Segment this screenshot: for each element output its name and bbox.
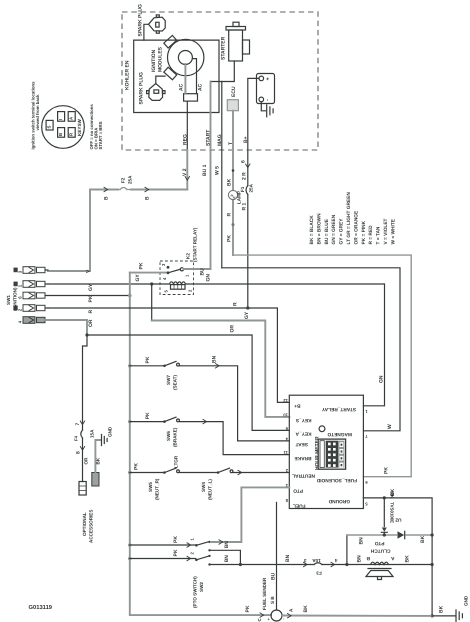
wire B+ battery to F1 [248, 78, 259, 308]
svg-text:ACCESSORIES: ACCESSORIES [88, 510, 93, 543]
wire V row1 to fuse F2 [48, 190, 187, 272]
tick on B+ wire [246, 164, 250, 168]
svg-text:SPARK PLUG: SPARK PLUG [137, 4, 143, 37]
TVS diode vertical [383, 498, 385, 527]
svg-text:BU: BU [271, 572, 277, 580]
svg-text:PK = PINK: PK = PINK [361, 220, 367, 244]
svg-text:3: 3 [304, 558, 307, 563]
svg-text:B: B [104, 196, 110, 200]
svg-text:FUEL SENDER: FUEL SENDER [262, 577, 267, 610]
indicator circle [319, 426, 325, 432]
junction GY/KEY_S drop [150, 282, 153, 285]
wire KEY_S (GY grey) [151, 284, 153, 321]
svg-text:W: W [387, 424, 393, 429]
wire R row4 to hour meter B+ [48, 308, 289, 402]
hour meter box [289, 395, 363, 508]
svg-text:viewed from back: viewed from back [35, 94, 40, 131]
svg-text:KOHLER EN: KOHLER EN [125, 60, 131, 90]
relay contact [167, 266, 170, 269]
svg-text:MAG: MAG [217, 134, 223, 146]
wire AC left (grey) [184, 64, 186, 94]
svg-text:BN: BN [211, 355, 217, 363]
wire OR to hour meter KEY_A [87, 335, 289, 430]
wire REG (V) from regulator down [186, 101, 188, 150]
ground symbol GND (accessories) [102, 435, 108, 446]
svg-text:T: T [228, 142, 234, 145]
wire GROUND pin to right rail [363, 498, 432, 616]
svg-text:START: START [206, 130, 212, 146]
svg-text:(BRAKE): (BRAKE) [172, 427, 177, 447]
SW1 terminal 3 (V) [14, 268, 18, 273]
svg-text:OR = ORANGE: OR = ORANGE [353, 210, 359, 245]
svg-text:ECU: ECU [231, 86, 237, 97]
fuse F3 10A bump [314, 563, 322, 565]
spark plug top [149, 17, 166, 31]
svg-text:GROUND: GROUND [328, 498, 350, 504]
svg-text:S: S [47, 126, 52, 129]
svg-text:(NEUT_R): (NEUT_R) [154, 478, 159, 500]
svg-text:CLUTCH: CLUTCH [370, 548, 390, 554]
terminal A [68, 112, 75, 122]
wire PK vertical rail (grey) [130, 273, 271, 615]
ignition key switch face [42, 106, 85, 149]
svg-text:10: 10 [283, 413, 288, 418]
svg-text:BN: BN [359, 537, 365, 545]
svg-text:BK: BK [438, 605, 444, 613]
fuse F4 15A bump [81, 430, 83, 438]
svg-text:PK: PK [139, 262, 145, 269]
svg-text:R 1: R 1 [242, 203, 248, 211]
svg-text:PK: PK [227, 235, 233, 242]
wire BN horizontal (grey) [347, 534, 432, 536]
svg-text:GND: GND [107, 426, 112, 437]
svg-text:W = WHITE: W = WHITE [390, 218, 396, 244]
switch SW5 (NEUT_R) [130, 472, 164, 474]
wire W to hour meter MAGNETO [222, 268, 400, 431]
svg-text:GY = GREY: GY = GREY [339, 218, 345, 245]
svg-text:4: 4 [335, 558, 338, 563]
svg-text:SW4: SW4 [201, 482, 206, 492]
svg-text:START = BRS: START = BRS [98, 121, 103, 149]
fuse F1 25A bump [246, 186, 248, 195]
svg-text:(IGNITION): (IGNITION) [13, 287, 18, 311]
svg-text:R: R [232, 302, 238, 306]
battery [257, 74, 275, 104]
svg-text:KEY_A: KEY_A [295, 431, 312, 437]
diode U2 [398, 531, 405, 538]
svg-text:F2: F2 [120, 177, 125, 183]
terminal S [46, 120, 53, 130]
Kohler engine dashed enclosure [122, 12, 318, 150]
svg-text:NEUTRAL: NEUTRAL [292, 473, 315, 479]
svg-text:B+: B+ [243, 136, 249, 143]
svg-text:PK: PK [145, 356, 151, 363]
svg-text:15A: 15A [89, 429, 94, 438]
svg-text:A: A [391, 555, 395, 561]
svg-text:PK: PK [173, 536, 179, 543]
wire starter to start line [211, 61, 235, 82]
svg-text:STARTER: STARTER [220, 36, 226, 60]
svg-text:25A: 25A [249, 183, 254, 192]
svg-text:KEY_S: KEY_S [295, 417, 312, 423]
svg-text:START_RELAY: START_RELAY [321, 406, 356, 412]
wire GY row2 through relay coil [48, 283, 170, 285]
wire PK row3 [48, 295, 130, 297]
svg-text:BU = BLUE: BU = BLUE [324, 218, 330, 244]
svg-text:PK: PK [245, 605, 251, 612]
svg-text:I: I [58, 119, 63, 120]
svg-text:SW5: SW5 [148, 482, 153, 492]
svg-text:F1: F1 [240, 186, 245, 192]
relay K2 dashed box [160, 261, 194, 295]
svg-text:GY: GY [244, 311, 250, 319]
svg-text:V 2: V 2 [182, 168, 188, 176]
svg-text:PK: PK [145, 412, 151, 419]
svg-text:SW7: SW7 [166, 375, 171, 385]
ignition module top [164, 35, 177, 48]
fuel sender [271, 610, 282, 621]
wire BK to ground [95, 440, 101, 473]
svg-text:6: 6 [240, 160, 246, 163]
svg-text:GN: GN [378, 375, 384, 383]
svg-text:BN: BN [224, 555, 230, 563]
flywheel [168, 39, 204, 75]
svg-text:MAGNETO: MAGNETO [327, 431, 352, 437]
svg-text:25A: 25A [127, 175, 132, 184]
svg-text:PK: PK [173, 549, 179, 556]
svg-text:PTO: PTO [293, 488, 303, 494]
lamp [228, 190, 237, 199]
svg-text:GN = GREEN: GN = GREEN [331, 214, 337, 244]
svg-text:7: 7 [75, 423, 81, 426]
svg-text:B: B [58, 133, 63, 136]
svg-text:U2: U2 [395, 517, 401, 523]
svg-text:GND: GND [463, 595, 468, 606]
wire GN coil to hour meter START_RELAY [186, 284, 385, 406]
wire PK to relay pin 4 (grey) [130, 272, 166, 274]
svg-text:KEYSW: KEYSW [77, 118, 82, 136]
svg-text:GY: GY [135, 274, 141, 282]
svg-text:F4: F4 [73, 435, 78, 441]
svg-text:SW6: SW6 [166, 431, 171, 441]
switch SW7 (SEAT) [130, 365, 164, 367]
svg-text:BK: BK [227, 178, 233, 186]
svg-text:W 5: W 5 [214, 166, 220, 175]
svg-text:REG: REG [182, 134, 188, 145]
svg-text:12: 12 [283, 398, 288, 403]
svg-text:BK: BK [95, 457, 100, 464]
wire START (BU) vertical grey [210, 82, 212, 269]
wire PK lamp line right to hour meter FUEL_SOLENOID [233, 255, 411, 477]
ECU box [227, 100, 238, 111]
svg-text:TVS0100E: TVS0100E [389, 502, 394, 523]
svg-text:B+: B+ [294, 403, 300, 409]
SW1 terminal 1 (GY) [14, 282, 18, 287]
svg-text:PK: PK [88, 295, 94, 302]
wire BN clutch branch up [346, 535, 348, 565]
PTO clutch body [368, 568, 391, 570]
switch SW6 (BRAKE) [130, 421, 164, 423]
wire AC right [192, 59, 196, 94]
svg-text:BK: BK [303, 605, 309, 613]
svg-text:SW1: SW1 [6, 295, 11, 305]
rectifier-regulator box [184, 94, 198, 101]
svg-text:SEAT: SEAT [295, 441, 308, 447]
LCD display [318, 439, 345, 469]
wire MAG (W) vertical [221, 82, 223, 268]
svg-text:B: B [366, 555, 370, 561]
svg-text:G013119: G013119 [29, 604, 53, 611]
relay coil [170, 282, 186, 284]
svg-text:K2: K2 [185, 253, 190, 259]
connector ticks on F2 line [104, 187, 108, 191]
svg-text:(PTO SWITCH): (PTO SWITCH) [192, 576, 197, 608]
svg-text:T = TAN: T = TAN [376, 226, 382, 244]
svg-text:LTGR: LTGR [173, 455, 178, 468]
svg-text:B: B [145, 196, 151, 200]
svg-text:R: R [88, 310, 94, 314]
switch SW4 (NEUT_L) [217, 471, 220, 474]
PTO clutch coil [371, 562, 389, 564]
wire PTO pin to SW2 (grey) [212, 487, 289, 542]
wire spark plug bottom to module [156, 76, 165, 83]
svg-text:R: R [227, 213, 233, 217]
svg-text:(START RELAY): (START RELAY) [193, 227, 198, 262]
svg-text:AC: AC [178, 83, 184, 91]
bottom right ground [432, 615, 455, 617]
svg-text:OR: OR [88, 319, 94, 327]
svg-text:FUEL: FUEL [293, 503, 306, 509]
svg-text:8: 8 [75, 451, 81, 454]
svg-text:R = RED: R = RED [368, 225, 374, 245]
optional accessory connector BK [92, 473, 99, 487]
svg-text:BU 1: BU 1 [202, 164, 208, 176]
svg-text:(NEUT_L): (NEUT_L) [207, 479, 212, 500]
wire OR down to fuse F4 [83, 335, 88, 482]
wire spark plug top to box [144, 24, 149, 40]
svg-text:BK: BK [405, 555, 411, 563]
engine inner box [134, 40, 219, 112]
svg-text:FUEL_SOLENOID: FUEL_SOLENOID [316, 477, 357, 483]
tick on V wire [185, 177, 189, 181]
wire T from ECU (grey) with lamp [232, 111, 234, 255]
terminal B [58, 128, 65, 138]
svg-text:BK: BK [420, 535, 426, 543]
svg-text:PTO: PTO [374, 540, 384, 546]
svg-text:10A: 10A [312, 558, 321, 563]
ground symbol (battery) [267, 105, 273, 117]
svg-text:IGNITION: IGNITION [151, 49, 157, 72]
svg-text:OR: OR [229, 325, 235, 333]
svg-text:OR: OR [83, 457, 88, 465]
svg-text:BN: BN [285, 554, 291, 562]
optional accessory connector OR [79, 482, 86, 496]
svg-text:2 R: 2 R [242, 172, 248, 180]
svg-text:BN: BN [357, 555, 363, 563]
wire BN pole2 to F3 [210, 564, 433, 566]
dot on T wire [232, 169, 235, 172]
svg-text:PK: PK [133, 463, 139, 470]
svg-text:AC: AC [198, 83, 204, 91]
svg-text:(SEAT): (SEAT) [172, 375, 177, 390]
svg-text:BRAKE: BRAKE [294, 455, 312, 461]
svg-text:BK = BLACK: BK = BLACK [309, 215, 315, 245]
switch SW2 (PTO SWITCH) pole 1 [130, 544, 195, 546]
wire OR row5 [48, 320, 87, 335]
svg-text:PK: PK [384, 467, 390, 474]
terminal R [68, 128, 75, 138]
svg-text:OPTIONAL: OPTIONAL [82, 512, 87, 536]
svg-text:BN: BN [224, 541, 230, 549]
ignition module bottom [164, 67, 177, 80]
spark plug bottom [149, 84, 163, 101]
svg-text:MODULES: MODULES [158, 46, 164, 72]
svg-text:BN = BROWN: BN = BROWN [316, 213, 322, 245]
battery ground wire [261, 102, 265, 111]
svg-text:LT GR = LIGHT GREEN: LT GR = LIGHT GREEN [346, 192, 352, 245]
svg-text:V = VIOLET: V = VIOLET [383, 218, 389, 244]
wire BU fuel sender to FUEL pin [276, 502, 278, 610]
svg-text:GN: GN [206, 274, 212, 282]
fuse F2 25A bump [120, 188, 127, 190]
svg-text:SPARK PLUG: SPARK PLUG [139, 72, 145, 105]
terminal I [58, 112, 65, 122]
svg-text:+: + [266, 77, 272, 80]
switch SW2 pole 2 [130, 558, 196, 560]
svg-text:S B: S B [270, 596, 275, 604]
svg-text:SW2: SW2 [199, 582, 204, 592]
svg-text:HOUR METER: HOUR METER [314, 436, 320, 470]
wire pole1 NC down [210, 550, 241, 564]
svg-text:F3: F3 [316, 571, 322, 576]
svg-text:-: - [265, 99, 271, 101]
svg-text:BK: BK [390, 488, 396, 496]
starter motor [233, 22, 239, 26]
SW1 terminal 2 (R) [14, 306, 18, 311]
